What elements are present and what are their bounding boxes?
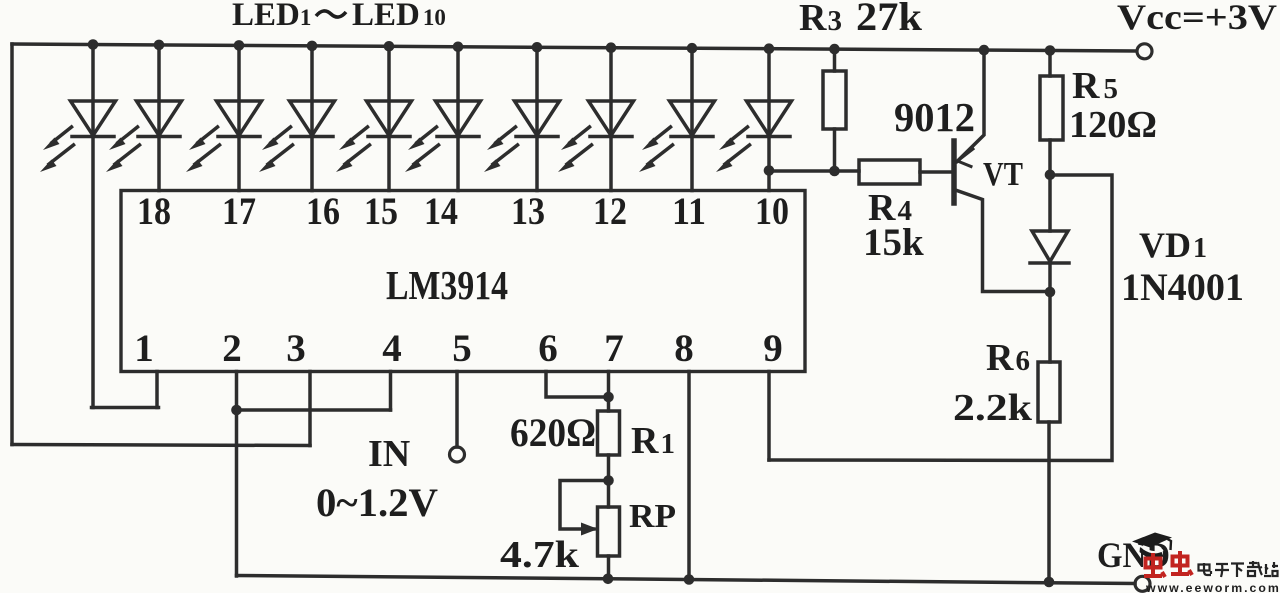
wire: LED3 anode bbox=[237, 45, 241, 136]
wire: R1 to RP bbox=[607, 455, 611, 507]
wire: pin 5 input stub bbox=[455, 372, 459, 448]
transistor VT emitter arrowhead (PNP, open chevron) bbox=[958, 149, 974, 167]
wire: rail to R3 bbox=[833, 49, 837, 71]
svg-text:IN: IN bbox=[368, 433, 410, 475]
wire: pin 2 to pin 4 bbox=[237, 408, 391, 412]
node: R3 on Vcc rail bbox=[829, 44, 840, 55]
svg-text:R3: R3 bbox=[799, 0, 842, 39]
wire: VD1 to R6 bbox=[1048, 263, 1052, 362]
node: emitter on Vcc rail bbox=[979, 45, 990, 56]
svg-text:9012: 9012 bbox=[894, 94, 975, 140]
resistor R4 body bbox=[859, 160, 920, 184]
svg-text:11: 11 bbox=[672, 190, 706, 233]
wire: rail to R5 bbox=[1048, 51, 1052, 77]
junction node on Vcc rail for LED10 bbox=[764, 43, 775, 54]
op-amp/IC U1 LM3914 body bbox=[121, 191, 805, 372]
wire: LED8 cathode to IC pin bbox=[609, 137, 613, 191]
wire: pin 2 down to ground rail bbox=[235, 372, 239, 577]
svg-text:18: 18 bbox=[137, 190, 171, 233]
wire: pin 4 stub bbox=[389, 372, 393, 411]
transistor Q VT base bar bbox=[951, 141, 957, 203]
wire: LED4 cathode to IC pin bbox=[310, 137, 314, 191]
terminal IN (open circle) bbox=[450, 447, 465, 462]
wire: Vcc top rail bbox=[12, 44, 1136, 51]
svg-text:12: 12 bbox=[593, 190, 627, 233]
wire: RP to ground rail bbox=[607, 556, 611, 579]
svg-text:620Ω: 620Ω bbox=[510, 410, 596, 455]
wire: pin 9 down bbox=[767, 372, 771, 461]
junction node on Vcc rail for LED5 bbox=[384, 41, 395, 52]
LED LED7 bbox=[493, 101, 560, 164]
wire: LED8 anode bbox=[609, 48, 613, 137]
node: pin2/pin4 junction bbox=[231, 405, 242, 416]
svg-text:LM3914: LM3914 bbox=[386, 262, 508, 308]
junction node on Vcc rail for LED9 bbox=[687, 43, 698, 54]
junction node on Vcc rail for LED6 bbox=[453, 42, 464, 53]
svg-text:4.7k: 4.7k bbox=[500, 534, 580, 576]
diode VD1 bbox=[1030, 231, 1069, 263]
wire: LED6 cathode to IC pin bbox=[456, 137, 460, 191]
svg-text:10: 10 bbox=[755, 190, 789, 233]
svg-text:6: 6 bbox=[538, 327, 558, 370]
svg-text:1: 1 bbox=[134, 327, 154, 370]
node: RP/ground junction bbox=[603, 574, 614, 585]
wire: R6 to ground rail bbox=[1047, 422, 1051, 583]
svg-text:4: 4 bbox=[382, 327, 402, 370]
wire: pin 9 horizontal to right branch bbox=[769, 175, 1112, 461]
node: pin6/pin7 junction bbox=[603, 392, 614, 403]
terminal Vcc (open circle) bbox=[1137, 44, 1152, 59]
node: R6/ground junction bbox=[1044, 577, 1055, 588]
node: pin8/ground junction bbox=[684, 574, 695, 585]
svg-text:2: 2 bbox=[222, 327, 242, 370]
LED LED6 bbox=[414, 101, 481, 164]
wire: LED4 anode bbox=[310, 46, 314, 137]
svg-text:3: 3 bbox=[286, 327, 306, 370]
LED LED9 bbox=[648, 101, 715, 164]
svg-text:2.2k: 2.2k bbox=[953, 387, 1033, 429]
svg-text:8: 8 bbox=[674, 327, 694, 370]
wire: left edge from Vcc rail down bbox=[10, 44, 14, 445]
svg-text:RP: RP bbox=[629, 498, 676, 535]
wire: LED1 cathode down left side of IC bbox=[91, 137, 95, 408]
wire: R5 to VD1 bbox=[1048, 140, 1052, 231]
wire: pin 1 to LED1 cathode bbox=[92, 406, 159, 410]
wire: LED1 anode bbox=[91, 45, 95, 137]
svg-text:www.eeworm.com: www.eeworm.com bbox=[1145, 581, 1280, 593]
wire: LED6 anode bbox=[456, 47, 460, 137]
watermark logo: chongchong red characters bbox=[1144, 551, 1192, 577]
junction node on Vcc rail for LED1 bbox=[88, 39, 99, 50]
wire: LED7 cathode to IC pin bbox=[535, 137, 539, 191]
svg-text:14: 14 bbox=[424, 190, 458, 233]
transistor VT collector wire bbox=[956, 190, 1051, 292]
node: R3/R4 junction bbox=[829, 166, 840, 177]
svg-text:Vcc=+3V: Vcc=+3V bbox=[1117, 0, 1277, 37]
svg-text:LED10: LED10 bbox=[352, 0, 446, 33]
wire: bottom-left horizontal to pin 3 bbox=[12, 445, 310, 446]
svg-text:7: 7 bbox=[604, 327, 624, 370]
wire: LED9 cathode to IC pin bbox=[690, 137, 694, 191]
node: R1/RP junction bbox=[603, 475, 614, 486]
wire: LED5 cathode to IC pin bbox=[387, 137, 391, 191]
junction node on Vcc rail for LED4 bbox=[307, 41, 318, 52]
node: R5/VD1/pin9 junction bbox=[1045, 170, 1056, 181]
svg-text:16: 16 bbox=[306, 190, 340, 233]
svg-text:17: 17 bbox=[222, 190, 256, 233]
wire: pin 1 stub down bbox=[155, 372, 159, 408]
wire: LED2 cathode to IC pin bbox=[157, 137, 161, 191]
watermark logo: site name characters bbox=[1199, 561, 1279, 577]
wire: LED9 anode bbox=[690, 48, 694, 136]
resistor R5 body bbox=[1040, 76, 1063, 140]
junction node on Vcc rail for LED7 bbox=[532, 42, 543, 53]
wire: LED5 anode bbox=[387, 46, 391, 136]
wire: R3 to base node bbox=[833, 129, 837, 171]
wire: pin 10 node to R4 bbox=[769, 169, 859, 173]
wire: ground bottom rail bbox=[237, 576, 1136, 584]
resistor R6 body bbox=[1038, 362, 1060, 422]
wire: pin 6 stub bbox=[546, 372, 609, 398]
svg-text:27k: 27k bbox=[856, 0, 923, 39]
svg-text:9: 9 bbox=[763, 327, 783, 370]
watermark logo: graduation cap icon bbox=[1132, 533, 1172, 559]
junction node on Vcc rail for LED8 bbox=[606, 42, 617, 53]
svg-text:15: 15 bbox=[364, 190, 398, 233]
wire: pin 8 down to ground rail bbox=[687, 372, 691, 581]
wire: R4 to base bbox=[920, 170, 952, 174]
junction node on Vcc rail for LED3 bbox=[234, 40, 245, 51]
node: VD1/collector junction bbox=[1045, 287, 1056, 298]
wire: LED3 cathode to IC pin bbox=[237, 137, 241, 191]
wire: pin 7 down bbox=[607, 372, 611, 412]
svg-text:0~1.2V: 0~1.2V bbox=[316, 480, 438, 525]
LED LED10 bbox=[725, 101, 792, 164]
resistor R3 body bbox=[823, 71, 846, 129]
junction node on Vcc rail for LED2 bbox=[154, 40, 165, 51]
LED LED1 bbox=[49, 101, 116, 164]
svg-text:120Ω: 120Ω bbox=[1069, 104, 1157, 146]
resistor R1 body bbox=[598, 411, 620, 455]
LED LED4 bbox=[268, 101, 335, 164]
RP wiper arrowhead bbox=[581, 523, 598, 536]
LED LED8 bbox=[567, 101, 634, 164]
wire: RP wiper loop bbox=[560, 481, 609, 530]
LED LED3 bbox=[195, 101, 262, 164]
svg-text:5: 5 bbox=[452, 327, 472, 370]
svg-text:13: 13 bbox=[511, 190, 545, 233]
wire: pin 3 stub bbox=[308, 372, 312, 446]
transistor VT emitter wire bbox=[957, 50, 984, 161]
terminal GND (open circle) bbox=[1135, 576, 1150, 591]
svg-text:15k: 15k bbox=[863, 221, 924, 264]
LED LED5 bbox=[345, 101, 412, 164]
svg-text:1N4001: 1N4001 bbox=[1121, 266, 1244, 309]
svg-text:VT: VT bbox=[983, 156, 1023, 193]
node: R5 on Vcc rail bbox=[1045, 45, 1056, 56]
wire: LED10 cathode to IC pin bbox=[767, 137, 771, 191]
wire: LED10 anode bbox=[767, 49, 771, 137]
node: LED10 cathode / R4 junction bbox=[764, 165, 775, 176]
LED LED2 bbox=[115, 101, 182, 164]
wire: LED2 anode bbox=[157, 45, 161, 137]
wire: LED7 anode bbox=[535, 47, 539, 136]
potentiometer RP body bbox=[598, 507, 620, 556]
svg-text:LED1: LED1 bbox=[232, 0, 311, 33]
